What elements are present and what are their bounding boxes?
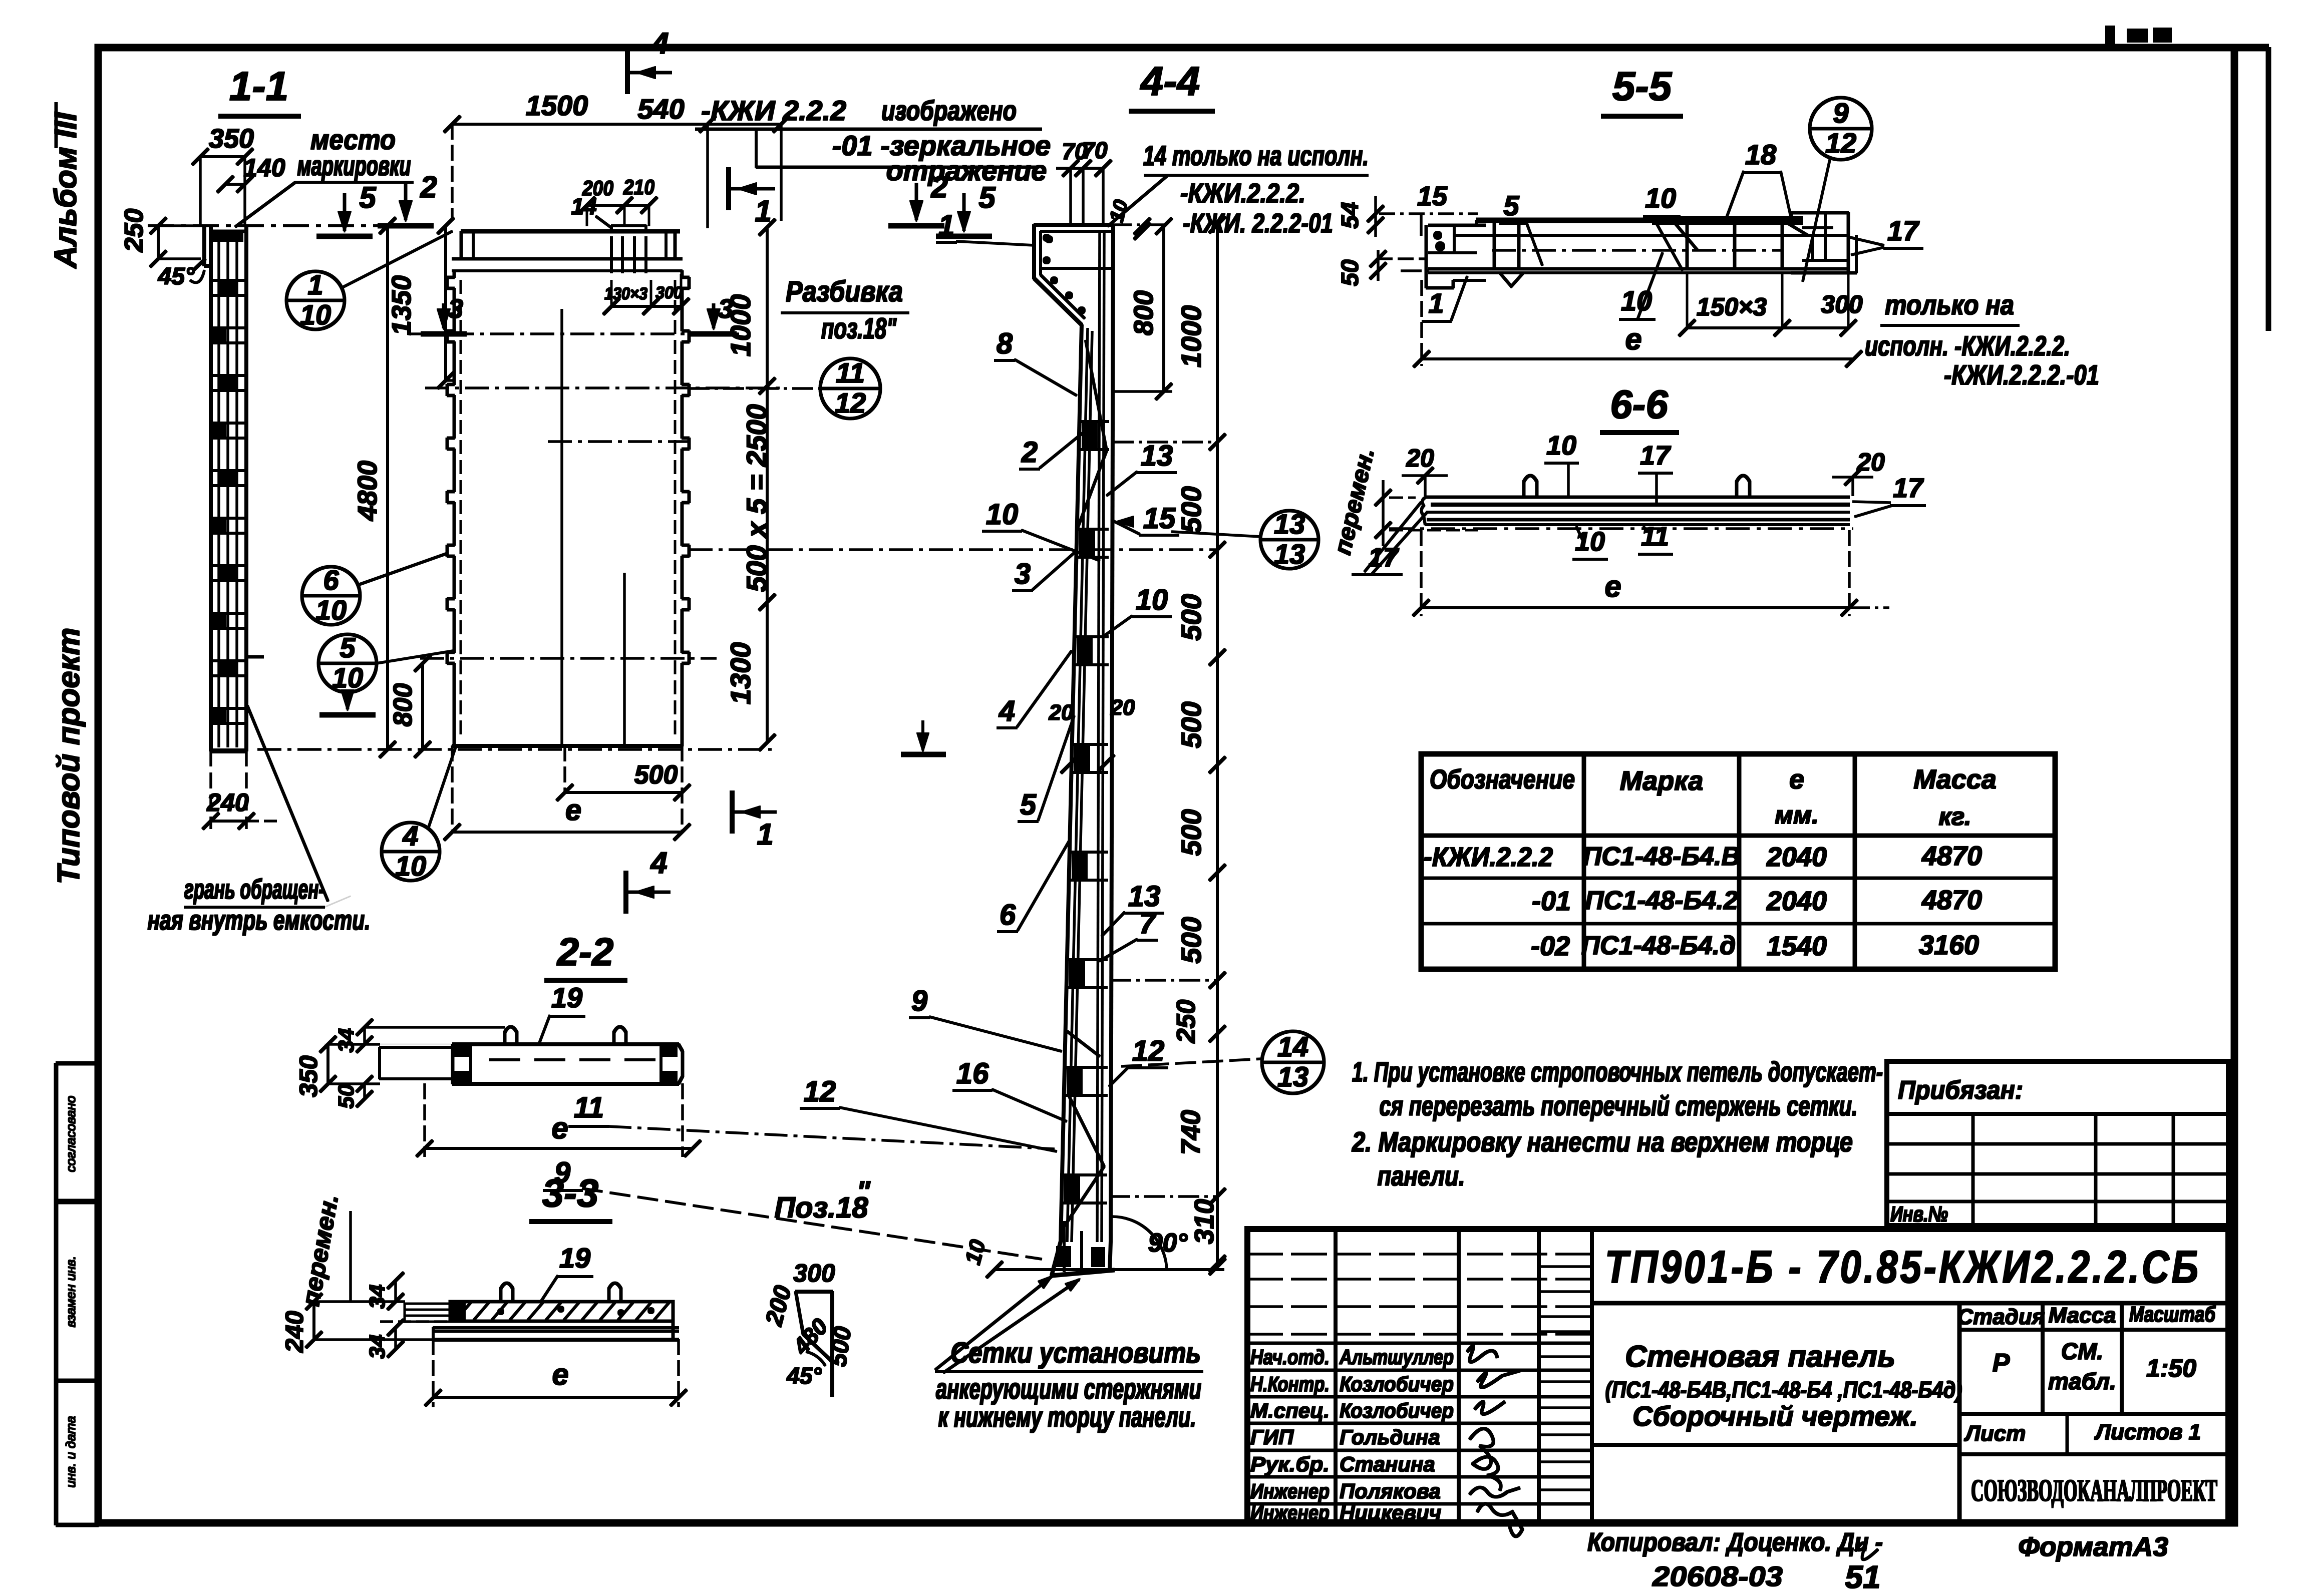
svg-text:34: 34 <box>365 1285 390 1309</box>
svg-text:19: 19 <box>551 982 582 1013</box>
svg-text:17: 17 <box>1640 441 1672 471</box>
svg-text:5: 5 <box>359 181 377 214</box>
svg-text:ПС1-48-Б4.д: ПС1-48-Б4.д <box>1581 931 1736 960</box>
svg-text:Копировал: Доценко. Ди -: Копировал: Доценко. Ди - <box>1587 1528 1883 1557</box>
svg-text:10: 10 <box>1546 431 1576 461</box>
svg-text:540: 540 <box>637 93 684 125</box>
svg-text:5: 5 <box>1503 190 1519 221</box>
svg-text:6-6: 6-6 <box>1610 382 1668 427</box>
svg-text:1300: 1300 <box>725 642 756 705</box>
svg-text:20: 20 <box>1110 695 1135 720</box>
svg-text:6: 6 <box>323 564 339 596</box>
svg-text:е: е <box>552 1358 568 1391</box>
svg-text:е: е <box>565 794 581 827</box>
svg-text:Разбивка: Разбивка <box>786 275 903 308</box>
svg-text:маркировки: маркировки <box>297 150 411 181</box>
svg-text:240: 240 <box>280 1311 308 1353</box>
svg-text:перемен.: перемен. <box>296 1192 344 1308</box>
svg-text:исполн. -КЖИ.2.2.2.: исполн. -КЖИ.2.2.2. <box>1865 330 2070 361</box>
svg-text:М.спец.: М.спец. <box>1250 1399 1330 1422</box>
svg-text:4-4: 4-4 <box>1140 59 1200 104</box>
svg-text:инв. и дата: инв. и дата <box>63 1416 78 1487</box>
svg-text:к нижнему торцу панели.: к нижнему торцу панели. <box>938 1401 1196 1433</box>
svg-text:Альтшуллер: Альтшуллер <box>1339 1345 1454 1369</box>
svg-text:Полякова: Полякова <box>1340 1479 1441 1503</box>
svg-text:14 только на исполн.: 14 только на исполн. <box>1143 140 1369 171</box>
svg-text:1: 1 <box>307 269 323 300</box>
svg-text:45°: 45° <box>158 263 195 290</box>
svg-text:панели.: панели. <box>1378 1160 1465 1191</box>
svg-text:3-3: 3-3 <box>542 1171 599 1215</box>
svg-text:17: 17 <box>1887 215 1920 246</box>
svg-text:10: 10 <box>300 299 331 330</box>
svg-text:5-5: 5-5 <box>1612 64 1673 109</box>
svg-text:350: 350 <box>294 1055 322 1097</box>
svg-text:2-2: 2-2 <box>556 930 614 974</box>
svg-text:Типовой проект: Типовой проект <box>52 628 86 885</box>
svg-text:1350: 1350 <box>387 275 417 335</box>
svg-text:взамен инв.: взамен инв. <box>63 1256 78 1328</box>
svg-text:ПС1-48-Б4.2: ПС1-48-Б4.2 <box>1585 886 1738 915</box>
svg-text:-КЖИ. 2.2.2-01: -КЖИ. 2.2.2-01 <box>1183 208 1333 238</box>
svg-text:140: 140 <box>243 154 285 182</box>
svg-text:50: 50 <box>1337 259 1364 286</box>
svg-text:210: 210 <box>623 175 654 199</box>
svg-text:9: 9 <box>911 985 927 1017</box>
svg-text:Гольдина: Гольдина <box>1340 1425 1440 1449</box>
svg-text:поз.18": поз.18" <box>821 312 897 345</box>
svg-text:500: 500 <box>1175 594 1207 640</box>
svg-text:70: 70 <box>1082 137 1108 163</box>
svg-text:7: 7 <box>1139 907 1157 940</box>
svg-text:Инженер: Инженер <box>1250 1501 1330 1524</box>
svg-text:11: 11 <box>836 357 865 388</box>
svg-text:20: 20 <box>1856 448 1885 476</box>
svg-text:54: 54 <box>1337 202 1364 228</box>
svg-text:Прибязан:: Прибязан: <box>1898 1076 2023 1105</box>
svg-text:16: 16 <box>956 1057 989 1090</box>
svg-text:Масса: Масса <box>2048 1303 2116 1328</box>
svg-text:4: 4 <box>650 846 667 880</box>
svg-text:51: 51 <box>1845 1559 1880 1595</box>
svg-text:150×3: 150×3 <box>1697 293 1767 321</box>
svg-text:Стеновая панель: Стеновая панель <box>1625 1340 1895 1373</box>
svg-text:13: 13 <box>1277 1061 1308 1092</box>
svg-text:1000: 1000 <box>725 294 756 357</box>
svg-text:15: 15 <box>1417 181 1448 211</box>
svg-text:500: 500 <box>1175 701 1207 748</box>
svg-text:20: 20 <box>1049 700 1074 725</box>
svg-text:500: 500 <box>1175 917 1207 963</box>
svg-text:4870: 4870 <box>1921 841 1982 871</box>
svg-text:Р: Р <box>1993 1349 2010 1378</box>
svg-text:4870: 4870 <box>1921 885 1982 915</box>
svg-text:20608-03: 20608-03 <box>1652 1560 1783 1592</box>
svg-text:-КЖИ.2.2.2.: -КЖИ.2.2.2. <box>1180 178 1305 208</box>
svg-text:грань обращен-: грань обращен- <box>184 873 324 905</box>
svg-text:3160: 3160 <box>1919 930 1979 960</box>
svg-text:740: 740 <box>1176 1110 1206 1155</box>
svg-text:8: 8 <box>997 327 1013 360</box>
svg-text:1:50: 1:50 <box>2146 1354 2196 1382</box>
svg-text:": " <box>856 1175 871 1208</box>
svg-text:300: 300 <box>793 1259 835 1287</box>
svg-text:мм.: мм. <box>1775 801 1819 829</box>
svg-text:Инв.№: Инв.№ <box>1890 1202 1948 1227</box>
svg-text:Инженер: Инженер <box>1250 1479 1330 1503</box>
svg-text:Ницкевич: Ницкевич <box>1340 1501 1441 1524</box>
svg-text:250: 250 <box>120 209 149 253</box>
svg-text:10: 10 <box>395 850 426 882</box>
svg-text:согласовано: согласовано <box>63 1096 78 1172</box>
svg-text:ная внутрь емкости.: ная внутрь емкости. <box>148 904 371 936</box>
svg-text:1: 1 <box>1428 287 1444 319</box>
svg-text:1: 1 <box>757 818 773 851</box>
svg-text:(ПС1-48-Б4В,ПС1-48-Б4 ,ПС1-48-: (ПС1-48-Б4В,ПС1-48-Б4 ,ПС1-48-Б4д) <box>1605 1377 1962 1403</box>
svg-text:20: 20 <box>1406 444 1434 472</box>
svg-text:Масштаб: Масштаб <box>2129 1302 2216 1327</box>
svg-text:34: 34 <box>365 1335 390 1359</box>
svg-text:е: е <box>1789 764 1804 794</box>
svg-text:12: 12 <box>804 1075 836 1108</box>
svg-text:17: 17 <box>1893 473 1924 503</box>
svg-text:Стадия: Стадия <box>1957 1305 2045 1329</box>
svg-text:10: 10 <box>986 498 1019 531</box>
svg-text:Козлобичер: Козлобичер <box>1340 1372 1454 1396</box>
svg-text:-02: -02 <box>1531 931 1570 961</box>
svg-text:13: 13 <box>1141 440 1173 472</box>
svg-text:табл.: табл. <box>2048 1368 2116 1394</box>
svg-text:10: 10 <box>1136 584 1168 616</box>
svg-text:5: 5 <box>1020 788 1037 821</box>
svg-text:ФорматА3: ФорматА3 <box>2018 1532 2168 1562</box>
svg-text:14: 14 <box>571 193 596 219</box>
svg-text:13: 13 <box>1274 508 1305 540</box>
svg-text:1. При установке строповочных: 1. При установке строповочных петель доп… <box>1352 1056 1883 1087</box>
svg-text:800: 800 <box>1129 290 1159 335</box>
svg-text:2: 2 <box>1021 436 1038 469</box>
svg-text:5: 5 <box>340 632 356 663</box>
svg-text:1: 1 <box>755 194 771 228</box>
svg-text:-КЖИ.2.2.2: -КЖИ.2.2.2 <box>1424 842 1553 872</box>
svg-text:кг.: кг. <box>1938 803 1971 831</box>
svg-text:изображено: изображено <box>881 95 1017 126</box>
svg-text:Рук.бр.: Рук.бр. <box>1250 1452 1330 1476</box>
svg-text:14: 14 <box>1277 1031 1308 1062</box>
svg-text:50: 50 <box>334 1084 359 1108</box>
svg-text:2. Маркировку нанести на верхн: 2. Маркировку нанести на верхнем торце <box>1352 1126 1853 1157</box>
svg-text:10: 10 <box>315 594 347 626</box>
svg-text:300: 300 <box>655 283 683 302</box>
svg-text:ся перерезать поперечный стерж: ся перерезать поперечный стержень сетки. <box>1380 1090 1858 1121</box>
svg-text:перемен.: перемен. <box>1330 446 1380 557</box>
svg-text:4800: 4800 <box>353 461 383 521</box>
svg-text:45°: 45° <box>786 1363 822 1389</box>
svg-text:-КЖИ 2.2.2: -КЖИ 2.2.2 <box>701 95 846 126</box>
svg-text:11: 11 <box>1641 522 1669 552</box>
svg-text:9: 9 <box>1833 97 1848 129</box>
svg-text:Марка: Марка <box>1620 766 1704 796</box>
svg-text:2: 2 <box>420 170 437 204</box>
svg-text:Обозначение: Обозначение <box>1430 764 1575 794</box>
svg-text:Лист: Лист <box>1964 1421 2026 1446</box>
svg-text:200: 200 <box>761 1283 797 1329</box>
svg-text:250: 250 <box>1172 1000 1201 1044</box>
svg-text:Поз.18: Поз.18 <box>774 1191 868 1224</box>
svg-text:12: 12 <box>1825 127 1856 159</box>
svg-text:Н.Контр.: Н.Контр. <box>1250 1372 1330 1396</box>
svg-text:Листов 1: Листов 1 <box>2094 1420 2201 1444</box>
svg-text:19: 19 <box>559 1242 590 1274</box>
svg-text:500: 500 <box>1175 486 1207 533</box>
svg-text:е: е <box>1625 322 1641 356</box>
svg-text:310: 310 <box>1189 1199 1219 1244</box>
svg-text:только на: только на <box>1885 289 2014 320</box>
svg-text:300: 300 <box>1821 290 1863 318</box>
svg-text:ТП901-Б - 70.85-КЖИ2.2.2.СБ: ТП901-Б - 70.85-КЖИ2.2.2.СБ <box>1605 1242 2201 1293</box>
svg-text:500 x 5 = 2500: 500 x 5 = 2500 <box>741 404 772 592</box>
svg-text:240: 240 <box>206 788 249 817</box>
svg-text:-КЖИ.2.2.2.-01: -КЖИ.2.2.2.-01 <box>1944 359 2099 390</box>
svg-text:Сборочный чертеж.: Сборочный чертеж. <box>1632 1400 1918 1432</box>
svg-text:отражение: отражение <box>886 155 1047 186</box>
svg-text:1000: 1000 <box>1175 305 1207 368</box>
svg-text:90°: 90° <box>1148 1229 1188 1258</box>
svg-text:4: 4 <box>402 820 418 852</box>
svg-text:12: 12 <box>1132 1035 1165 1067</box>
svg-text:2040: 2040 <box>1766 842 1827 872</box>
svg-text:10: 10 <box>1645 182 1676 214</box>
svg-text:1-1: 1-1 <box>229 64 289 109</box>
svg-text:3: 3 <box>1015 558 1031 590</box>
svg-text:1: 1 <box>938 209 954 242</box>
svg-text:1500: 1500 <box>526 90 588 121</box>
svg-text:10: 10 <box>1105 197 1132 224</box>
svg-text:е: е <box>1604 570 1621 603</box>
svg-text:10: 10 <box>332 662 363 693</box>
svg-text:ГИП: ГИП <box>1250 1425 1294 1449</box>
svg-text:500: 500 <box>1175 809 1207 856</box>
svg-text:Масса: Масса <box>1913 764 1997 794</box>
svg-text:СОЮЗВОДОКАНАЛПРОЕКТ: СОЮЗВОДОКАНАЛПРОЕКТ <box>1971 1474 2217 1508</box>
svg-text:Козлобичер: Козлобичер <box>1340 1399 1454 1422</box>
svg-text:6: 6 <box>1000 899 1016 931</box>
svg-text:15: 15 <box>1143 502 1176 535</box>
svg-text:Станина: Станина <box>1340 1452 1435 1476</box>
svg-text:350: 350 <box>209 124 254 154</box>
svg-text:4: 4 <box>651 27 669 60</box>
svg-text:1540: 1540 <box>1767 931 1827 961</box>
svg-text:10: 10 <box>1621 285 1652 316</box>
svg-text:2040: 2040 <box>1766 886 1827 916</box>
svg-text:34: 34 <box>334 1028 359 1053</box>
svg-text:500: 500 <box>825 1325 857 1368</box>
svg-text:СМ.: СМ. <box>2061 1338 2103 1364</box>
svg-text:Альбом III: Альбом III <box>49 112 83 269</box>
svg-text:-01: -01 <box>1532 886 1571 916</box>
svg-text:800: 800 <box>389 683 418 727</box>
svg-text:10: 10 <box>960 1237 991 1267</box>
svg-text:500: 500 <box>634 760 678 789</box>
svg-text:18: 18 <box>1745 139 1777 170</box>
svg-text:4: 4 <box>999 695 1015 727</box>
svg-text:13: 13 <box>1274 538 1305 570</box>
svg-text:11: 11 <box>574 1091 604 1124</box>
svg-text:12: 12 <box>835 387 866 419</box>
svg-text:е: е <box>551 1111 568 1145</box>
svg-text:ПС1-48-Б4.В: ПС1-48-Б4.В <box>1583 842 1740 871</box>
svg-text:3: 3 <box>448 294 463 324</box>
svg-text:Нач.отд.: Нач.отд. <box>1250 1345 1330 1369</box>
